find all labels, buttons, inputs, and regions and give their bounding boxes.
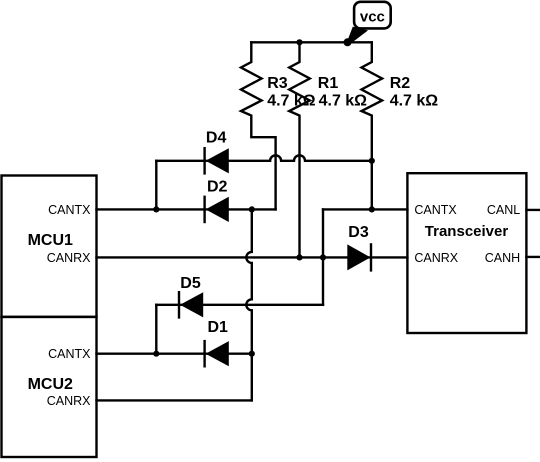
wire vertical D4-left to CANTX1 bbox=[155, 161, 157, 210]
diode D5 (cathode bar + triangle pointing left) bbox=[179, 291, 203, 319]
node D5 branch dot on CANTX2 bbox=[153, 351, 159, 357]
svg-text:vcc: vcc bbox=[360, 8, 385, 25]
resistor R1 (zigzag + lead down to CANRX1 line) bbox=[289, 42, 310, 257]
svg-text:R2: R2 bbox=[390, 75, 411, 92]
wire CANTX1 row (MCU1 CANTX / D2 row) bbox=[97, 208, 276, 210]
svg-text:D2: D2 bbox=[207, 179, 228, 196]
diode D3 (triangle pointing right + cathode bar) bbox=[347, 243, 371, 271]
svg-text:CANH: CANH bbox=[485, 251, 520, 265]
svg-text:CANTX: CANTX bbox=[48, 203, 91, 217]
wire vertical D5-left to CANTX2 bbox=[155, 305, 157, 354]
svg-text:CANRX: CANRX bbox=[414, 251, 458, 265]
diode D1 (cathode bar + triangle pointing left) bbox=[205, 340, 229, 368]
node VCC tap dot bbox=[344, 38, 352, 46]
VCC symbol box bbox=[354, 2, 391, 29]
diode D4 (cathode bar + triangle pointing left) bbox=[205, 147, 229, 175]
wire transceiver CANTX row bbox=[323, 208, 407, 210]
node x=251.8 dot on CANTX2 bbox=[249, 351, 255, 357]
transceiver box bbox=[407, 173, 526, 333]
node R2 bottom dot on transceiver CANTX row bbox=[369, 206, 375, 212]
svg-text:R3: R3 bbox=[267, 75, 288, 92]
svg-text:4.7 kΩ: 4.7 kΩ bbox=[390, 93, 439, 110]
wire CANRX2 row bbox=[97, 399, 252, 401]
wire CANTX2 row (MCU2 CANTX / D1 row) bbox=[97, 353, 252, 355]
wire CANH stub bbox=[526, 256, 540, 258]
svg-text:CANL: CANL bbox=[487, 203, 520, 217]
wire top rail bbox=[251, 41, 371, 43]
wire D4 row with hop-over humps at x=275.6 and x=299.5 bbox=[156, 155, 371, 161]
svg-text:D3: D3 bbox=[348, 224, 369, 241]
node R1 top dot bbox=[296, 39, 302, 45]
node R2/D4 dot bbox=[369, 158, 375, 164]
node x=251.8 dot on CANTX1 bbox=[249, 206, 255, 212]
svg-text:MCU2: MCU2 bbox=[28, 376, 73, 393]
svg-text:D1: D1 bbox=[208, 319, 229, 336]
svg-text:4.7 kΩ: 4.7 kΩ bbox=[267, 93, 316, 110]
wire vertical x=251.8 with hop-overs at y=257.4 and y=304.8 bbox=[246, 209, 252, 400]
node D4 branch dot on CANTX1 bbox=[153, 206, 159, 212]
svg-text:D5: D5 bbox=[180, 275, 201, 292]
wire vertical x=323 from CANTX row to D5 row bbox=[322, 209, 324, 304]
svg-text:CANTX: CANTX bbox=[414, 203, 457, 217]
svg-text:CANRX: CANRX bbox=[47, 251, 91, 265]
wire CANRX1 row (MCU1 CANRX to transceiver CANRX through D3) bbox=[97, 256, 408, 258]
svg-text:CANTX: CANTX bbox=[48, 347, 91, 361]
VCC tail wedge bbox=[347, 27, 369, 45]
wire D5 row bbox=[156, 304, 323, 306]
wire CANL stub bbox=[526, 209, 540, 211]
node R1 bottom dot on CANRX1 bbox=[296, 254, 302, 260]
svg-text:CANRX: CANRX bbox=[47, 394, 91, 408]
MCU1 box bbox=[2, 176, 97, 317]
svg-text:D4: D4 bbox=[206, 130, 227, 147]
svg-text:MCU1: MCU1 bbox=[28, 232, 73, 249]
node x=323 dot on CANRX1 bbox=[320, 254, 326, 260]
svg-text:4.7 kΩ: 4.7 kΩ bbox=[319, 93, 368, 110]
MCU2 box bbox=[2, 317, 97, 457]
diode D2 (cathode bar + triangle pointing left) bbox=[205, 196, 229, 224]
svg-text:R1: R1 bbox=[318, 75, 339, 92]
resistor R3 (zigzag + leads + jog down to CANTX1 line) bbox=[241, 42, 276, 209]
svg-text:Transceiver: Transceiver bbox=[425, 223, 509, 240]
resistor R2 (zigzag + lead down to junctions) bbox=[362, 42, 383, 209]
